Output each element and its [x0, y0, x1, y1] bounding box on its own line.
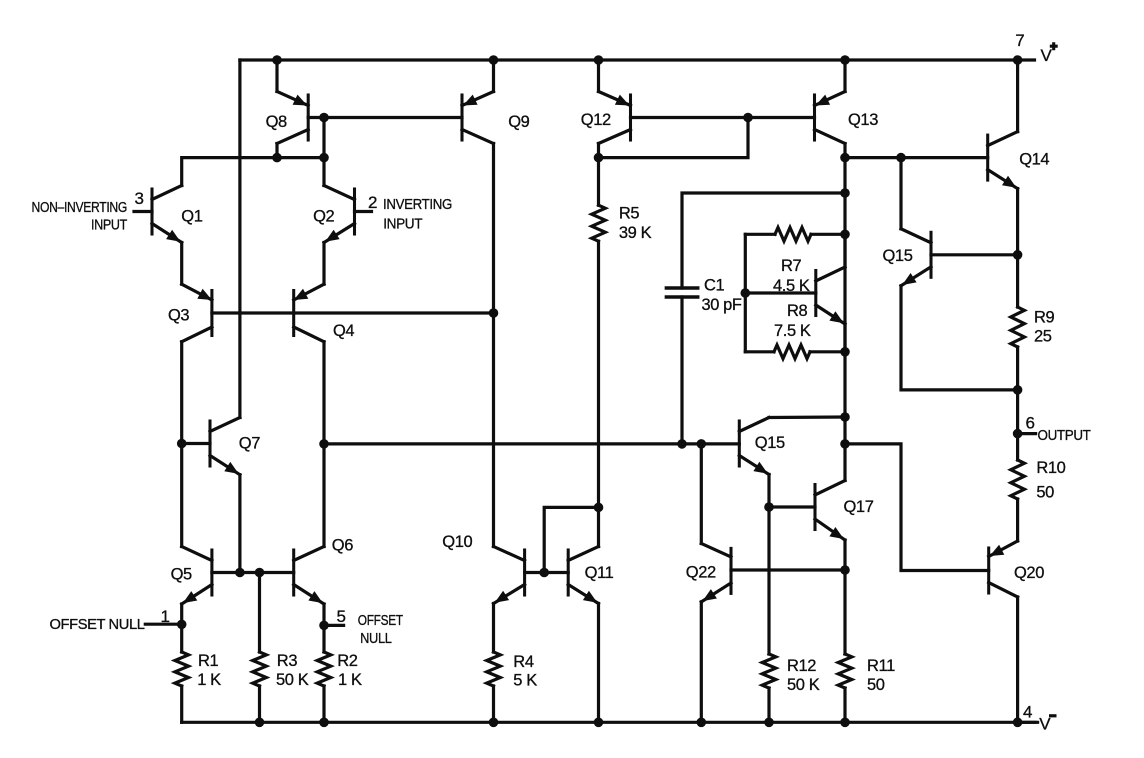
wire R4 bottom lead	[492, 686, 495, 722]
transistor Q10	[494, 547, 525, 604]
wire V+ rail	[240, 58, 1035, 61]
svg-text:INPUT: INPUT	[383, 215, 422, 232]
svg-text:R4: R4	[513, 653, 534, 671]
wire Q13-Q14 base line	[845, 156, 988, 159]
svg-text:Q10: Q10	[442, 533, 472, 551]
wire C1 bottom lead	[680, 297, 683, 444]
svg-text:Q7: Q7	[239, 435, 260, 453]
resistor R8	[745, 345, 845, 359]
wire Q1 emitter down	[180, 243, 183, 285]
svg-text:6: 6	[1026, 414, 1035, 433]
wire Q15 collector up	[899, 158, 902, 229]
wire Q14 emitter down	[1016, 189, 1019, 307]
wire C1 top lead	[682, 193, 845, 288]
svg-text:5 K: 5 K	[513, 672, 537, 690]
node Q12 emitter on V+	[594, 55, 604, 65]
node R3 top junction	[255, 568, 265, 578]
wire Q2 emitter into Q4	[294, 284, 324, 300]
svg-text:OUTPUT: OUTPUT	[1038, 427, 1091, 444]
wire Q10-Q11 base line	[525, 571, 569, 574]
svg-text:INPUT: INPUT	[91, 217, 127, 234]
wire pin1 lead	[145, 623, 181, 626]
svg-text:39 K: 39 K	[619, 224, 652, 242]
wire V- rail	[182, 721, 1035, 724]
svg-text:OFFSET NULL: OFFSET NULL	[50, 616, 145, 633]
svg-text:50: 50	[1036, 484, 1054, 502]
transistor Q13	[815, 60, 846, 144]
svg-text:1 K: 1 K	[338, 671, 362, 689]
wire R7-R8 left tie	[744, 234, 747, 351]
node Q17 base junction	[764, 502, 774, 512]
wire pin6 lead	[1018, 432, 1036, 435]
node Q8 base tie	[319, 113, 329, 123]
node Q15 collector junction	[840, 412, 850, 422]
svg-text:R10: R10	[1036, 459, 1065, 477]
transistor Q14	[988, 132, 1018, 189]
transistor Q5	[182, 547, 212, 605]
resistor R4	[487, 652, 501, 686]
wire Q17 collector stub	[843, 444, 846, 481]
transistor Q6	[294, 547, 324, 605]
node Q8 collector junction	[272, 153, 282, 163]
wire R10 top lead	[1016, 434, 1019, 460]
node R12 on V-	[764, 718, 774, 728]
node R11 on V-	[840, 718, 850, 728]
svg-text:50 K: 50 K	[787, 676, 820, 694]
wire R1 bottom lead	[180, 686, 183, 722]
transistor Q15 (output limiter)	[901, 229, 931, 286]
capacitor C1 bottom plate	[666, 295, 697, 299]
svg-text:R2: R2	[337, 652, 358, 670]
node Q22 feed junction	[697, 439, 707, 449]
node Q13 emitter on V+	[840, 55, 850, 65]
transistor Q12	[599, 60, 631, 144]
wire Q7 emitter down	[238, 475, 241, 573]
node Q15 base junction on output leg	[1013, 250, 1023, 260]
resistor R2	[317, 652, 331, 686]
wire mid bus y444	[324, 442, 739, 445]
wire pin2 lead	[355, 210, 372, 213]
node R2 on V-	[319, 718, 329, 728]
svg-text:Q4: Q4	[333, 322, 354, 340]
svg-text:NON–INVERTING: NON–INVERTING	[32, 199, 128, 216]
wire Q20 collector down	[1016, 597, 1019, 722]
svg-text:Q22: Q22	[686, 564, 716, 582]
svg-text:2: 2	[368, 193, 377, 212]
resistor R11	[838, 654, 852, 688]
svg-text:R9: R9	[1034, 308, 1055, 326]
node pin7 junction	[1013, 55, 1023, 65]
wire R10 bottom lead	[1016, 499, 1019, 541]
wire Q5 emitter down to pin1	[180, 604, 183, 624]
wire Q15 emitter down and across	[901, 286, 1018, 390]
transistor Q3	[182, 291, 212, 342]
transistor Q7	[210, 418, 240, 475]
node Q12 collector / R5 top	[594, 153, 604, 163]
wire Q15 mid collector	[769, 415, 845, 419]
svg-text:Q5: Q5	[171, 566, 192, 584]
transistor Q17	[815, 481, 845, 541]
svg-text:V: V	[1041, 46, 1053, 65]
node Q7 base junction	[177, 439, 187, 449]
wire Q15 base lead	[931, 253, 1018, 256]
svg-text:3: 3	[135, 189, 144, 208]
transistor Q11	[568, 547, 598, 604]
svg-text:Q2: Q2	[313, 208, 334, 226]
node Q8 emitter on V+	[272, 55, 282, 65]
node Q9 collector at base line	[489, 308, 499, 318]
svg-text:NULL: NULL	[360, 630, 392, 647]
node pin6 OUTPUT junction	[1013, 429, 1023, 439]
transistor Q15 (middle)	[739, 418, 769, 475]
arrow Q1 emitter into Q3 (Q3 emitter)	[197, 289, 212, 300]
node Q11 base tie top	[594, 503, 604, 513]
wire pin4 lead	[1018, 721, 1038, 724]
svg-text:25: 25	[1034, 328, 1052, 346]
wire R2 top lead	[322, 625, 325, 652]
wire Q1 collector up to bus	[182, 158, 324, 186]
wire Q22 collector feed	[700, 444, 703, 544]
node C1 top on Q13 chain	[840, 188, 850, 198]
node Q9 emitter on V+	[489, 55, 499, 65]
wire Q8 collector stub	[275, 144, 278, 158]
wire Q11 emitter down	[597, 604, 600, 723]
wire Q3-Q4 base line	[212, 311, 494, 314]
svg-text:R1: R1	[198, 652, 219, 670]
transistor Q16 (unlabeled)	[816, 267, 845, 324]
wire Q5-Q6 base line	[212, 571, 294, 574]
svg-text:Q14: Q14	[1019, 151, 1049, 169]
wire Q2 emitter down	[322, 243, 325, 285]
wire Q8 base-collector tie	[322, 118, 325, 158]
wire R2 bottom lead	[322, 686, 325, 722]
node input collector bus junction	[319, 153, 329, 163]
svg-text:Q12: Q12	[581, 111, 611, 129]
node Q17 collector junction	[840, 439, 850, 449]
node pin1 junction	[177, 620, 187, 630]
node pin4 junction	[1013, 718, 1023, 728]
wire Q14 collector to V+	[1016, 60, 1019, 132]
svg-text:7: 7	[1015, 31, 1024, 50]
resistor R1	[175, 652, 189, 686]
wire Q17 emitter stub	[843, 540, 846, 570]
transistor Q20	[989, 541, 1018, 597]
wire pin5 lead	[324, 624, 344, 627]
wire Q22 base lead	[731, 568, 845, 571]
wire Q9 collector to Q3/Q4 base line	[492, 144, 495, 314]
wire Q8-Q9 base line	[308, 116, 462, 119]
svg-text:OFFSET: OFFSET	[358, 612, 403, 629]
node R9 bottom junction	[1013, 385, 1023, 395]
transistor Q9	[462, 60, 494, 144]
node Q17 emitter junction	[840, 565, 850, 575]
node R3 on V-	[255, 718, 265, 728]
wire Q2 collector up to bus	[322, 158, 325, 186]
wire Q10/Q11 base tie	[544, 507, 598, 572]
wire Q6 emitter down to pin5	[322, 604, 325, 625]
wire Q1 emitter into Q3	[182, 284, 212, 300]
node C1 bottom junction	[677, 439, 687, 449]
svg-text:1: 1	[161, 607, 170, 626]
svg-text:Q11: Q11	[585, 564, 614, 582]
svg-text:INVERTING: INVERTING	[383, 196, 452, 213]
svg-text:50: 50	[867, 676, 885, 694]
node Q10-Q11 base junction	[539, 568, 549, 578]
svg-text:50 K: 50 K	[276, 671, 309, 689]
transistor Q4	[294, 291, 324, 342]
resistor R5	[592, 205, 606, 241]
node R7 right junction	[840, 230, 850, 240]
resistor R7	[745, 228, 845, 242]
svg-text:4: 4	[1023, 703, 1032, 722]
wire R11 top lead	[843, 570, 846, 654]
wire Q22 emitter down	[700, 602, 703, 722]
svg-text:Q9: Q9	[508, 113, 529, 131]
svg-text:R5: R5	[619, 205, 640, 223]
svg-text:Q20: Q20	[1014, 564, 1044, 582]
wire Q16 base lead	[745, 291, 816, 294]
wire Q12 base-collector tie	[599, 118, 749, 158]
wire R3 bottom lead	[258, 686, 261, 722]
wire Q3 collector down	[180, 342, 183, 547]
wire R5 top lead	[597, 158, 600, 206]
wire Q12-Q13 base line	[631, 116, 815, 119]
svg-text:R3: R3	[277, 652, 298, 670]
svg-text:C1: C1	[704, 277, 725, 295]
svg-text:Q15: Q15	[755, 434, 785, 452]
resistor R9	[1011, 307, 1025, 347]
wire Q11 collector up to R5	[597, 241, 600, 546]
wire Q10 collector up	[492, 313, 495, 547]
node Q16 base junction	[741, 288, 751, 298]
wire pin3 lead	[134, 210, 152, 213]
svg-text:Q8: Q8	[266, 113, 287, 131]
node pin5 junction	[319, 621, 329, 631]
wire Q4 collector down	[322, 342, 325, 547]
wire Q13 collector stub	[843, 144, 846, 158]
node Q12 base tie	[743, 113, 753, 123]
svg-text:Q15: Q15	[883, 247, 913, 265]
wire R1 top lead	[180, 624, 183, 652]
svg-text:R12: R12	[787, 657, 816, 675]
svg-text:R8: R8	[787, 302, 808, 320]
transistor Q1	[152, 186, 182, 243]
node Q7 emitter junction	[235, 568, 245, 578]
wire R11 bottom lead	[843, 688, 846, 722]
resistor R12	[762, 654, 776, 688]
resistor R3	[253, 652, 267, 686]
svg-text:Q17: Q17	[844, 498, 874, 516]
wire Q16 emitter stub	[843, 324, 846, 352]
capacitor C1 top plate	[666, 286, 697, 290]
node R4 on V-	[489, 718, 499, 728]
svg-text:R7: R7	[781, 257, 802, 275]
wire Q17 base lead	[769, 505, 815, 508]
node Q13 collector junction	[840, 153, 850, 163]
wire Q12 collector stub	[597, 144, 600, 158]
wire Q10 emitter down	[492, 604, 495, 653]
wire R9 bottom lead	[1016, 347, 1019, 434]
node mid-line left junction	[319, 439, 329, 449]
node Q11 emitter on V-	[594, 718, 604, 728]
svg-text:Q3: Q3	[168, 307, 189, 325]
svg-text:Q13: Q13	[848, 111, 878, 129]
node Q22 emitter on V-	[697, 718, 707, 728]
wire Q15 mid emitter down	[767, 475, 770, 655]
svg-text:Q1: Q1	[181, 208, 202, 226]
transistor Q8	[277, 60, 308, 144]
transistor Q2	[324, 186, 355, 243]
wire Q7 base lead	[182, 442, 210, 445]
wire R3 drop	[258, 573, 261, 653]
svg-text:Q6: Q6	[332, 537, 353, 555]
node Q15 top junction	[896, 153, 906, 163]
arrow Q2 emitter into Q4 (Q4 emitter)	[294, 289, 309, 300]
wire Q16 collector stub	[843, 234, 846, 267]
wire Q20 base line	[845, 444, 989, 571]
resistor R10	[1011, 460, 1025, 499]
svg-text:5: 5	[337, 607, 346, 626]
svg-text:R11: R11	[867, 657, 895, 675]
svg-text:7.5 K: 7.5 K	[774, 322, 811, 340]
wire Q13 collector chain	[843, 158, 846, 444]
wire R12 bottom lead	[767, 688, 770, 722]
svg-text:1 K: 1 K	[197, 671, 221, 689]
node R8 right junction	[840, 347, 850, 357]
svg-text:30 pF: 30 pF	[702, 296, 742, 314]
wire V+ drop to Q7 collector	[238, 60, 241, 418]
transistor Q22	[701, 544, 731, 602]
